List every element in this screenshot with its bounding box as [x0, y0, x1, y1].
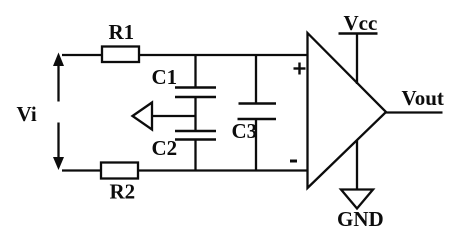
wire R2 to op-amp - input [138, 169, 308, 171]
wire C2 to bottom wire [194, 140, 196, 171]
wire R1 to op-amp + input [139, 54, 308, 56]
capacitor C3 [238, 104, 277, 120]
svg-text:Vi: Vi [17, 102, 37, 126]
wire top node to C1 [194, 55, 196, 88]
svg-text:R2: R2 [110, 180, 136, 204]
power Vcc rail [339, 34, 378, 85]
svg-text:C1: C1 [152, 65, 178, 89]
wire top node to C3 [255, 55, 257, 104]
op-amp + input mark [294, 63, 306, 75]
op-amp U1 [308, 33, 387, 188]
svg-text:C2: C2 [152, 136, 178, 160]
svg-text:C3: C3 [232, 119, 258, 143]
ground symbol [341, 190, 373, 209]
wire op-amp to ground [356, 140, 358, 190]
node Vi input double arrow [53, 53, 64, 171]
probe arrow at C1-C2 midpoint [133, 103, 196, 130]
wire C1 to C2 [194, 97, 196, 131]
capacitor C2 [175, 131, 216, 140]
wire C3 to bottom wire [255, 119, 257, 171]
svg-text:Vout: Vout [402, 86, 444, 110]
svg-text:GND: GND [337, 207, 384, 231]
resistor R2 [101, 163, 138, 179]
wire Vout output [386, 111, 443, 113]
wire top-left to R1 [62, 54, 102, 56]
capacitor C1 [175, 88, 216, 98]
svg-text:R1: R1 [109, 20, 135, 44]
wire bottom-left to R2 [62, 169, 101, 171]
resistor R1 [102, 47, 139, 63]
op-amp - input mark [290, 160, 297, 163]
svg-text:Vcc: Vcc [344, 11, 378, 35]
